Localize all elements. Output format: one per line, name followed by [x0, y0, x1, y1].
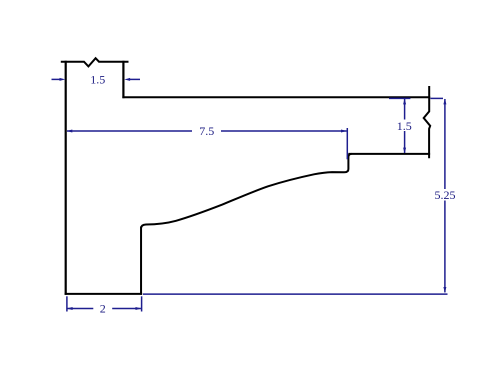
svg-text:7.5: 7.5 — [199, 124, 214, 138]
dimension 7.5 right extension line — [346, 128, 348, 159]
middle horizontal top face — [122, 96, 430, 98]
ledge horizontal edge — [348, 153, 430, 155]
svg-text:1.5: 1.5 — [397, 119, 412, 133]
dimension 5.25 bottom extension line — [143, 293, 448, 295]
dimension 1.5 (top notch) right arrow — [124, 78, 140, 81]
dimension 5.25 top extension line — [430, 97, 443, 99]
ogee curve — [141, 172, 344, 228]
svg-text:1.5: 1.5 — [90, 73, 105, 87]
dimension 1.5 (right step) upper arrow — [403, 99, 406, 120]
bottom edge — [65, 293, 143, 295]
dimension 7.5 line left part — [67, 130, 193, 133]
top edge with break symbol — [61, 58, 129, 66]
dimension 7.5 line right part — [221, 130, 347, 133]
lower-left vertical edge — [140, 227, 142, 295]
step vertical edge — [345, 154, 352, 172]
dimension 2 left extension line — [66, 296, 68, 311]
dimension 5.25 upper arrow — [443, 99, 446, 189]
dimension 1.5 (top notch) left arrow — [52, 78, 66, 81]
right vertical edge with break symbol — [424, 86, 431, 158]
notch right vertical edge — [122, 61, 124, 98]
left outer vertical edge — [65, 61, 67, 295]
dimension 1.5 (right step) top extension line — [389, 97, 410, 99]
dimension 5.25 lower arrow — [443, 201, 446, 293]
dimension 2 left arrow — [67, 307, 94, 310]
dimension 2 right extension line — [141, 296, 143, 311]
svg-text:2: 2 — [100, 302, 106, 316]
dimension 2 right arrow — [112, 307, 141, 310]
dimension 1.5 (right step) lower arrow — [403, 131, 406, 153]
svg-text:5.25: 5.25 — [435, 188, 456, 202]
